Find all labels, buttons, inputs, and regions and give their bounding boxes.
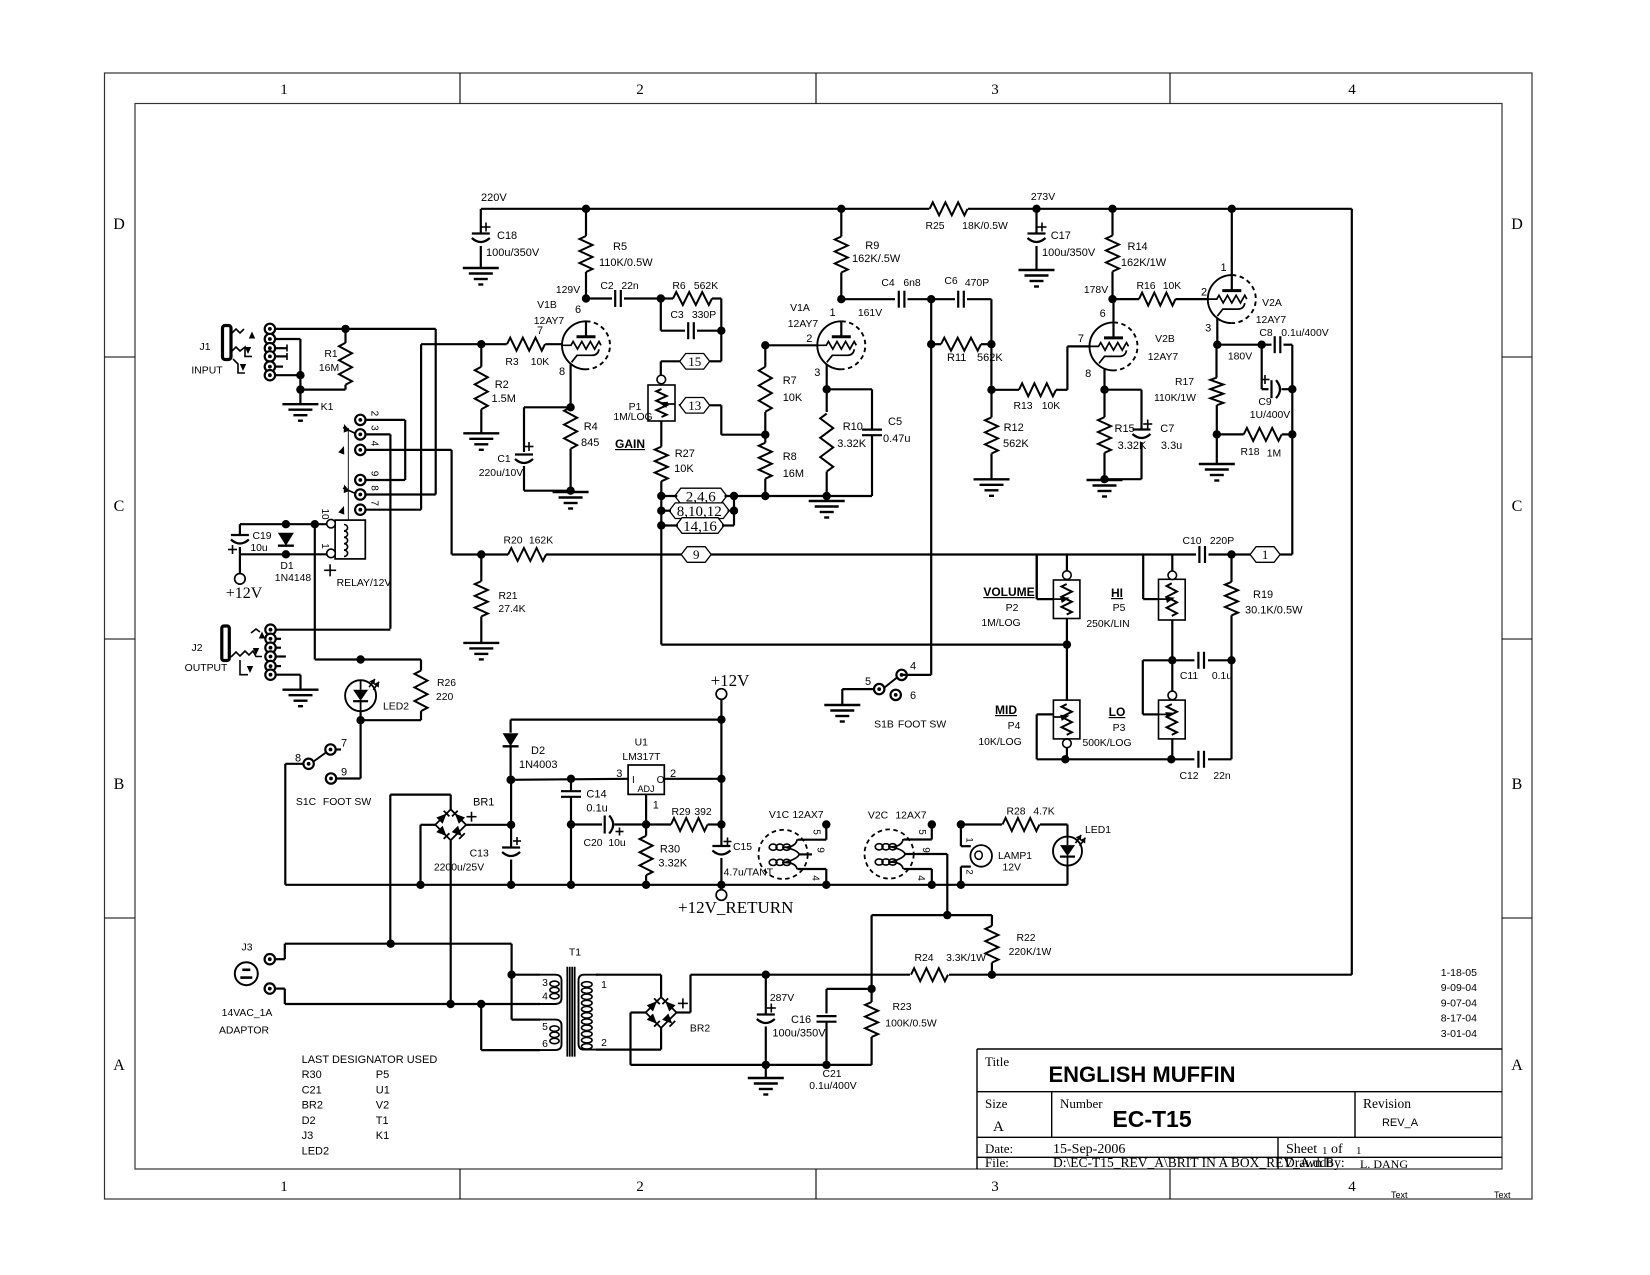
svg-text:10: 10 bbox=[319, 508, 330, 520]
svg-text:R23: R23 bbox=[892, 1002, 911, 1013]
svg-text:12AY7: 12AY7 bbox=[1256, 315, 1287, 326]
svg-text:5: 5 bbox=[811, 829, 822, 835]
svg-text:100u/350V: 100u/350V bbox=[772, 1028, 826, 1040]
svg-text:2: 2 bbox=[369, 411, 380, 417]
svg-text:1: 1 bbox=[830, 307, 836, 319]
svg-text:9: 9 bbox=[341, 767, 347, 779]
svg-text:S1C: S1C bbox=[296, 797, 317, 808]
svg-text:10u: 10u bbox=[250, 543, 268, 554]
svg-text:BR1: BR1 bbox=[473, 797, 494, 809]
svg-text:16M: 16M bbox=[319, 363, 339, 374]
svg-text:R24: R24 bbox=[914, 953, 933, 964]
svg-text:10K: 10K bbox=[674, 463, 694, 475]
svg-text:1M/LOG: 1M/LOG bbox=[981, 618, 1020, 629]
svg-text:1: 1 bbox=[280, 82, 288, 98]
svg-text:BR2: BR2 bbox=[302, 1100, 323, 1112]
svg-text:C1: C1 bbox=[497, 454, 511, 465]
svg-text:5: 5 bbox=[865, 676, 871, 688]
svg-text:Revision: Revision bbox=[1363, 1096, 1411, 1111]
svg-text:4.7u/TANT: 4.7u/TANT bbox=[724, 868, 774, 879]
svg-text:C: C bbox=[1512, 498, 1523, 515]
svg-text:0.1u: 0.1u bbox=[1212, 671, 1232, 682]
svg-text:Text: Text bbox=[1494, 1190, 1511, 1200]
svg-text:INPUT: INPUT bbox=[191, 366, 223, 377]
svg-text:R4: R4 bbox=[584, 421, 598, 433]
svg-text:B: B bbox=[1512, 776, 1523, 793]
svg-text:845: 845 bbox=[581, 437, 599, 449]
svg-text:R20: R20 bbox=[503, 536, 522, 547]
svg-text:R9: R9 bbox=[865, 240, 879, 252]
svg-text:L. DANG: L. DANG bbox=[1360, 1157, 1408, 1171]
svg-text:470P: 470P bbox=[965, 278, 989, 289]
svg-text:T1: T1 bbox=[376, 1115, 389, 1127]
svg-text:V2A: V2A bbox=[1262, 298, 1282, 309]
svg-text:A: A bbox=[1511, 1057, 1523, 1074]
svg-text:5: 5 bbox=[916, 829, 927, 835]
svg-text:K1: K1 bbox=[376, 1130, 389, 1142]
svg-text:C6: C6 bbox=[944, 276, 958, 287]
svg-text:8: 8 bbox=[369, 485, 380, 491]
svg-text:LED1: LED1 bbox=[1085, 825, 1111, 836]
svg-text:C4: C4 bbox=[881, 278, 895, 289]
svg-text:R25: R25 bbox=[925, 221, 944, 232]
svg-text:LAMP1: LAMP1 bbox=[998, 851, 1032, 862]
svg-text:287V: 287V bbox=[770, 993, 794, 1004]
svg-text:12AX7: 12AX7 bbox=[895, 811, 926, 822]
svg-text:J3: J3 bbox=[302, 1130, 314, 1142]
svg-text:C14: C14 bbox=[586, 789, 606, 801]
svg-text:+12V: +12V bbox=[226, 585, 263, 602]
svg-text:C18: C18 bbox=[497, 230, 517, 242]
svg-text:V1C: V1C bbox=[769, 810, 790, 821]
svg-text:0.1u/400V: 0.1u/400V bbox=[1281, 328, 1328, 339]
svg-text:9: 9 bbox=[693, 547, 700, 562]
svg-text:+12V: +12V bbox=[711, 671, 751, 690]
svg-text:3: 3 bbox=[369, 425, 380, 431]
svg-text:10K: 10K bbox=[1163, 281, 1182, 292]
svg-text:9: 9 bbox=[920, 847, 931, 853]
svg-text:J1: J1 bbox=[200, 342, 211, 353]
svg-text:R5: R5 bbox=[613, 241, 627, 253]
svg-text:REV_A: REV_A bbox=[1382, 1117, 1419, 1129]
svg-text:R26: R26 bbox=[437, 678, 456, 689]
svg-text:3.32K: 3.32K bbox=[1118, 440, 1147, 452]
svg-text:LAST DESIGNATOR USED: LAST DESIGNATOR USED bbox=[302, 1054, 438, 1066]
svg-text:C16: C16 bbox=[791, 1014, 811, 1026]
svg-text:220V: 220V bbox=[481, 192, 507, 204]
svg-text:FOOT SW: FOOT SW bbox=[323, 797, 371, 808]
svg-text:P5: P5 bbox=[1113, 603, 1126, 614]
svg-text:C2: C2 bbox=[600, 281, 614, 292]
svg-text:180V: 180V bbox=[1228, 352, 1252, 363]
svg-text:R17: R17 bbox=[1175, 377, 1194, 388]
svg-text:4.7K: 4.7K bbox=[1033, 807, 1054, 818]
svg-text:R22: R22 bbox=[1016, 933, 1035, 944]
svg-text:562K: 562K bbox=[1003, 438, 1029, 450]
svg-text:File:: File: bbox=[985, 1155, 1009, 1170]
svg-text:4: 4 bbox=[915, 875, 926, 881]
svg-text:1: 1 bbox=[1220, 262, 1226, 274]
svg-text:4: 4 bbox=[810, 875, 821, 881]
svg-text:OUTPUT: OUTPUT bbox=[185, 663, 228, 674]
svg-text:HI: HI bbox=[1111, 586, 1123, 600]
svg-text:10K: 10K bbox=[531, 357, 550, 368]
svg-text:1N4003: 1N4003 bbox=[519, 759, 558, 771]
svg-text:162K/1W: 162K/1W bbox=[1121, 257, 1167, 269]
svg-text:22n: 22n bbox=[621, 281, 639, 292]
svg-text:0.1u/400V: 0.1u/400V bbox=[809, 1081, 856, 1092]
svg-text:3: 3 bbox=[616, 768, 622, 780]
svg-text:V2C: V2C bbox=[868, 811, 889, 822]
svg-text:220u/10V: 220u/10V bbox=[479, 468, 524, 479]
svg-text:P4: P4 bbox=[1008, 721, 1021, 732]
svg-text:R8: R8 bbox=[783, 451, 797, 463]
svg-text:D2: D2 bbox=[302, 1115, 316, 1127]
svg-text:330P: 330P bbox=[692, 310, 716, 321]
svg-text:3: 3 bbox=[814, 367, 820, 379]
svg-text:1: 1 bbox=[601, 980, 607, 991]
svg-text:C21: C21 bbox=[822, 1069, 841, 1080]
svg-text:R2: R2 bbox=[495, 379, 509, 391]
svg-text:3: 3 bbox=[542, 978, 548, 989]
svg-text:273V: 273V bbox=[1031, 192, 1055, 203]
svg-text:R12: R12 bbox=[1004, 422, 1024, 434]
svg-text:V1B: V1B bbox=[537, 300, 557, 311]
svg-text:C7: C7 bbox=[1160, 423, 1174, 435]
svg-text:Date:: Date: bbox=[985, 1141, 1013, 1156]
svg-text:12AX7: 12AX7 bbox=[792, 810, 823, 821]
svg-text:18K/0.5W: 18K/0.5W bbox=[962, 221, 1008, 232]
svg-text:500K/LOG: 500K/LOG bbox=[1082, 738, 1131, 749]
svg-text:3: 3 bbox=[1205, 323, 1211, 335]
svg-text:2: 2 bbox=[601, 1038, 607, 1049]
svg-text:LED2: LED2 bbox=[383, 702, 409, 713]
svg-text:C17: C17 bbox=[1051, 230, 1071, 242]
svg-text:Title: Title bbox=[985, 1054, 1009, 1069]
svg-text:6n8: 6n8 bbox=[903, 278, 921, 289]
svg-text:R29: R29 bbox=[671, 807, 690, 818]
svg-text:4: 4 bbox=[910, 661, 916, 673]
svg-text:1.5M: 1.5M bbox=[492, 393, 516, 405]
svg-text:1: 1 bbox=[1356, 1145, 1362, 1157]
svg-text:220K/1W: 220K/1W bbox=[1009, 947, 1052, 958]
svg-text:+12V_RETURN: +12V_RETURN bbox=[678, 898, 793, 917]
svg-text:10K/LOG: 10K/LOG bbox=[978, 737, 1021, 748]
svg-text:LM317T: LM317T bbox=[622, 752, 661, 763]
svg-text:12V: 12V bbox=[1003, 863, 1022, 874]
svg-text:110K/0.5W: 110K/0.5W bbox=[599, 257, 653, 269]
svg-text:2: 2 bbox=[636, 82, 644, 98]
svg-text:U1: U1 bbox=[635, 738, 649, 749]
svg-text:10u: 10u bbox=[608, 838, 626, 849]
svg-text:C11: C11 bbox=[1180, 671, 1199, 682]
svg-text:C5: C5 bbox=[888, 416, 902, 428]
svg-text:T1: T1 bbox=[569, 948, 581, 959]
svg-text:R27: R27 bbox=[675, 448, 695, 460]
svg-text:R11: R11 bbox=[947, 352, 966, 364]
svg-text:I: I bbox=[632, 775, 635, 786]
svg-text:2: 2 bbox=[670, 768, 676, 780]
svg-text:4: 4 bbox=[369, 441, 380, 447]
svg-text:C3: C3 bbox=[670, 310, 684, 321]
svg-text:R6: R6 bbox=[672, 281, 686, 292]
svg-text:4: 4 bbox=[1348, 82, 1356, 98]
svg-text:8-17-04: 8-17-04 bbox=[1441, 1013, 1477, 1025]
svg-text:0.1u: 0.1u bbox=[586, 803, 607, 815]
svg-text:ADAPTOR: ADAPTOR bbox=[219, 1026, 270, 1037]
svg-text:D: D bbox=[113, 216, 125, 233]
svg-text:V2: V2 bbox=[376, 1100, 389, 1112]
svg-text:C: C bbox=[114, 498, 125, 515]
svg-text:R15: R15 bbox=[1115, 423, 1135, 435]
svg-text:5: 5 bbox=[542, 1022, 548, 1033]
svg-text:J3: J3 bbox=[242, 943, 253, 954]
svg-text:8: 8 bbox=[295, 753, 301, 765]
svg-text:1N4148: 1N4148 bbox=[275, 573, 312, 584]
svg-text:R18: R18 bbox=[1240, 447, 1259, 458]
svg-text:C21: C21 bbox=[302, 1084, 322, 1096]
svg-text:Number: Number bbox=[1060, 1096, 1103, 1111]
svg-text:RELAY/12V: RELAY/12V bbox=[337, 578, 392, 589]
svg-text:14,16: 14,16 bbox=[683, 519, 717, 535]
svg-text:V2B: V2B bbox=[1155, 334, 1175, 345]
svg-text:562K: 562K bbox=[977, 352, 1003, 364]
svg-text:0.47u: 0.47u bbox=[883, 433, 911, 445]
svg-text:9: 9 bbox=[815, 847, 826, 853]
svg-text:162K/.5W: 162K/.5W bbox=[852, 253, 901, 265]
svg-text:6: 6 bbox=[575, 304, 581, 316]
svg-text:P3: P3 bbox=[1113, 723, 1126, 734]
svg-text:C8: C8 bbox=[1259, 328, 1273, 339]
svg-text:A: A bbox=[993, 1119, 1004, 1135]
svg-text:J2: J2 bbox=[192, 643, 203, 654]
svg-text:P2: P2 bbox=[1006, 603, 1019, 614]
svg-text:10K: 10K bbox=[783, 392, 803, 404]
svg-text:R30: R30 bbox=[302, 1069, 322, 1081]
svg-text:K1: K1 bbox=[321, 402, 334, 413]
svg-text:7: 7 bbox=[369, 500, 380, 506]
svg-text:C15: C15 bbox=[733, 842, 752, 853]
svg-text:100K/0.5W: 100K/0.5W bbox=[885, 1019, 937, 1030]
svg-text:D2: D2 bbox=[531, 745, 545, 757]
svg-text:R28: R28 bbox=[1006, 807, 1025, 818]
svg-text:ENGLISH MUFFIN: ENGLISH MUFFIN bbox=[1049, 1062, 1236, 1087]
svg-text:2: 2 bbox=[1201, 287, 1207, 299]
svg-text:B: B bbox=[114, 776, 125, 793]
svg-text:R30: R30 bbox=[660, 844, 680, 856]
svg-text:7: 7 bbox=[537, 325, 543, 337]
svg-text:162K: 162K bbox=[529, 536, 553, 547]
svg-text:R10: R10 bbox=[843, 421, 863, 433]
svg-text:30.1K/0.5W: 30.1K/0.5W bbox=[1245, 605, 1303, 617]
svg-text:R7: R7 bbox=[783, 375, 797, 387]
svg-text:R16: R16 bbox=[1136, 281, 1155, 292]
svg-text:4: 4 bbox=[542, 992, 548, 1003]
svg-text:O: O bbox=[657, 775, 665, 786]
svg-text:3-01-04: 3-01-04 bbox=[1441, 1028, 1477, 1040]
svg-text:GAIN: GAIN bbox=[615, 437, 645, 451]
svg-text:1U/400V: 1U/400V bbox=[1250, 410, 1291, 421]
svg-text:MID: MID bbox=[995, 703, 1017, 717]
svg-text:A: A bbox=[113, 1057, 125, 1074]
svg-text:562K: 562K bbox=[694, 281, 718, 292]
svg-text:3: 3 bbox=[991, 1179, 999, 1195]
svg-text:FOOT SW: FOOT SW bbox=[898, 720, 946, 731]
svg-text:10K: 10K bbox=[1042, 401, 1061, 412]
svg-text:22n: 22n bbox=[1213, 771, 1231, 782]
svg-text:Text: Text bbox=[1391, 1190, 1408, 1200]
svg-text:6: 6 bbox=[542, 1039, 548, 1050]
svg-text:R21: R21 bbox=[498, 591, 517, 602]
svg-text:129V: 129V bbox=[556, 285, 580, 296]
svg-text:16M: 16M bbox=[783, 468, 804, 480]
svg-text:C10: C10 bbox=[1182, 536, 1201, 547]
svg-text:R14: R14 bbox=[1128, 241, 1148, 253]
svg-text:1M: 1M bbox=[1267, 449, 1281, 460]
svg-text:1: 1 bbox=[653, 800, 659, 812]
svg-text:110K/1W: 110K/1W bbox=[1154, 393, 1196, 404]
svg-text:BR2: BR2 bbox=[690, 1024, 710, 1035]
svg-text:9: 9 bbox=[369, 471, 380, 477]
svg-text:13: 13 bbox=[688, 398, 701, 413]
svg-text:100u/350V: 100u/350V bbox=[1042, 247, 1096, 259]
svg-text:S1B: S1B bbox=[874, 720, 894, 731]
svg-text:ADJ: ADJ bbox=[637, 784, 654, 794]
svg-text:3.3K/1W: 3.3K/1W bbox=[946, 953, 986, 964]
svg-text:250K/LIN: 250K/LIN bbox=[1086, 619, 1129, 630]
svg-text:Size: Size bbox=[985, 1096, 1008, 1111]
svg-text:4: 4 bbox=[1348, 1179, 1356, 1195]
svg-text:9-09-04: 9-09-04 bbox=[1441, 982, 1477, 994]
svg-text:3.3u: 3.3u bbox=[1161, 440, 1182, 452]
svg-text:C20: C20 bbox=[583, 838, 602, 849]
svg-text:100u/350V: 100u/350V bbox=[486, 247, 540, 259]
svg-text:EC-T15: EC-T15 bbox=[1112, 1106, 1191, 1132]
svg-text:3.32K: 3.32K bbox=[837, 438, 866, 450]
svg-text:15: 15 bbox=[688, 354, 701, 369]
svg-text:6: 6 bbox=[910, 690, 916, 702]
svg-text:1-18-05: 1-18-05 bbox=[1441, 967, 1477, 979]
svg-text:14VAC_1A: 14VAC_1A bbox=[222, 1008, 273, 1019]
svg-text:R19: R19 bbox=[1253, 589, 1273, 601]
svg-text:C12: C12 bbox=[1179, 771, 1198, 782]
svg-text:9-07-04: 9-07-04 bbox=[1441, 997, 1477, 1009]
svg-text:R3: R3 bbox=[505, 357, 519, 368]
svg-text:2200u/25V: 2200u/25V bbox=[434, 863, 484, 874]
svg-text:2: 2 bbox=[806, 333, 812, 345]
svg-text:C13: C13 bbox=[470, 849, 489, 860]
svg-text:3.32K: 3.32K bbox=[658, 858, 687, 870]
svg-text:C9: C9 bbox=[1258, 397, 1272, 408]
svg-text:LO: LO bbox=[1109, 705, 1126, 719]
svg-text:7: 7 bbox=[341, 738, 347, 750]
svg-text:D1: D1 bbox=[280, 561, 294, 572]
svg-text:7: 7 bbox=[1078, 333, 1084, 345]
svg-text:178V: 178V bbox=[1084, 285, 1108, 296]
svg-text:2: 2 bbox=[636, 1179, 644, 1195]
svg-text:161V: 161V bbox=[858, 308, 882, 319]
svg-text:P5: P5 bbox=[376, 1069, 389, 1081]
svg-text:Drawn By:: Drawn By: bbox=[1285, 1155, 1345, 1170]
svg-text:1: 1 bbox=[280, 1179, 288, 1195]
svg-text:1M/LOG: 1M/LOG bbox=[613, 412, 652, 423]
svg-text:LED2: LED2 bbox=[302, 1146, 330, 1158]
svg-text:C19: C19 bbox=[252, 531, 271, 542]
svg-text:12AY7: 12AY7 bbox=[1148, 352, 1179, 363]
svg-text:220P: 220P bbox=[1210, 536, 1234, 547]
svg-text:U1: U1 bbox=[376, 1084, 390, 1096]
svg-text:8: 8 bbox=[1085, 368, 1091, 380]
svg-text:12AY7: 12AY7 bbox=[788, 319, 819, 330]
svg-text:VOLUME: VOLUME bbox=[983, 585, 1034, 599]
svg-text:220: 220 bbox=[436, 692, 454, 703]
svg-text:V1A: V1A bbox=[790, 303, 810, 314]
svg-text:1: 1 bbox=[1262, 547, 1269, 562]
svg-text:2: 2 bbox=[964, 869, 975, 874]
svg-text:27.4K: 27.4K bbox=[498, 604, 525, 615]
svg-text:R13: R13 bbox=[1013, 401, 1032, 412]
svg-text:392: 392 bbox=[694, 807, 712, 818]
svg-text:8: 8 bbox=[559, 366, 565, 378]
svg-text:1: 1 bbox=[319, 543, 330, 549]
svg-text:3: 3 bbox=[991, 82, 999, 98]
svg-text:1: 1 bbox=[964, 837, 975, 842]
svg-text:6: 6 bbox=[1100, 308, 1106, 320]
svg-text:R1: R1 bbox=[324, 349, 338, 360]
svg-text:D: D bbox=[1511, 216, 1523, 233]
